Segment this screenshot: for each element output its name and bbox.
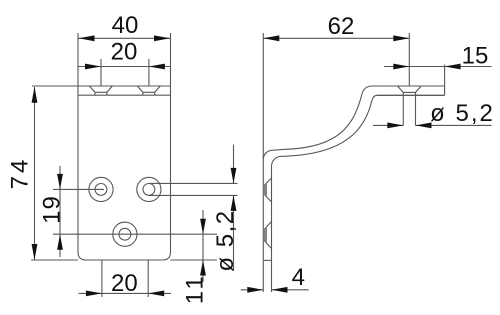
svg-text:40: 40 (112, 12, 139, 39)
svg-text:4: 4 (292, 264, 305, 291)
side view flange right edge (444, 65, 446, 96)
arrow 20 bottom right (148, 291, 164, 297)
dim line 74 (34, 87, 36, 260)
arrow 20 top right (149, 64, 165, 70)
extension line hole row2 center (53, 233, 217, 235)
flange fold line (78, 94, 171, 96)
arrow 62 left (263, 35, 279, 41)
extension line 62 left (leg outer extended) (262, 33, 264, 159)
side view hole mark lower (265, 222, 272, 249)
dim line 40 (78, 37, 171, 39)
arrow 20 bottom left (86, 291, 102, 297)
arrow 11 top (200, 219, 206, 235)
arrow 15 left (393, 64, 409, 70)
extension lines dia 5,2 side (402, 95, 404, 125)
dim line 19 (59, 166, 61, 257)
arrow dia52 left view top (231, 168, 237, 184)
arrow 4 right (272, 287, 288, 293)
svg-text:11: 11 (182, 273, 209, 304)
svg-text:74: 74 (7, 157, 34, 190)
arrow 40 left (79, 35, 95, 41)
hole bottom-middle (113, 222, 137, 246)
plate outline (front view) (78, 86, 171, 260)
dim line 11 (202, 210, 204, 282)
svg-text:15: 15 (462, 43, 489, 70)
dim line 4 (241, 289, 264, 291)
dim line 20 bottom (79, 292, 172, 294)
leader line dia 5,2 left view (233, 145, 235, 184)
dim line 62 (263, 37, 409, 39)
arrow 62 right (393, 35, 409, 41)
arrow 15 right (445, 64, 461, 70)
svg-text:62: 62 (328, 13, 355, 40)
arrow 4 left (247, 287, 263, 293)
svg-text:19: 19 (39, 195, 66, 224)
side view flange bottom line (377, 94, 445, 96)
arrow 40 right (154, 35, 170, 41)
svg-text:20: 20 (111, 39, 138, 66)
side view hole mark upper (265, 178, 272, 202)
svg-text:ø 5,2: ø 5,2 (212, 209, 239, 271)
extension lines 4 (leg edges extended) (262, 260, 264, 292)
extension line plate left edge up (77, 33, 79, 86)
extension line hole col right up (148, 59, 150, 86)
arrow dia52 left view bottom (231, 195, 237, 211)
extension line hole col left up (100, 59, 102, 86)
extension line bottom 20 left (101, 260, 103, 297)
arrow 19 top (57, 174, 63, 190)
extension line 62 right (hole centerline) (408, 33, 410, 86)
extension line 74 bottom (31, 259, 78, 261)
hole top-right (137, 177, 161, 201)
arrow 11 bottom (200, 260, 206, 276)
hole top-left (89, 177, 113, 201)
extension line hole row1 center (53, 188, 104, 190)
arrow 74 bottom (32, 244, 38, 260)
extension line 74 top (32, 85, 78, 87)
countersink section left (top band) (89, 86, 112, 95)
arrow 19 bottom (57, 234, 63, 250)
tangent line hole2 bottom (149, 194, 238, 196)
extension line bottom 20 right (147, 260, 149, 297)
extension line 11 bottom (171, 259, 218, 261)
dim line dia 5,2 side (373, 124, 403, 126)
dim line 20 top (79, 66, 171, 68)
side view inner profile (272, 95, 445, 260)
countersink section right (top band) (137, 86, 160, 95)
svg-text:20: 20 (111, 270, 138, 297)
arrow 74 top (32, 87, 38, 103)
svg-text:ø 5,2: ø 5,2 (430, 100, 495, 127)
tangent line hole2 top (149, 182, 238, 184)
side view outer profile (263, 86, 444, 260)
arrow dia52 side left (387, 123, 403, 129)
dim line 15 (384, 66, 409, 68)
extension line plate right edge up (170, 33, 172, 86)
side view leg bottom cap (263, 259, 271, 261)
arrow 20 top left (85, 64, 101, 70)
arrow dia52 side right (416, 123, 432, 129)
side view flange countersink (398, 86, 422, 95)
